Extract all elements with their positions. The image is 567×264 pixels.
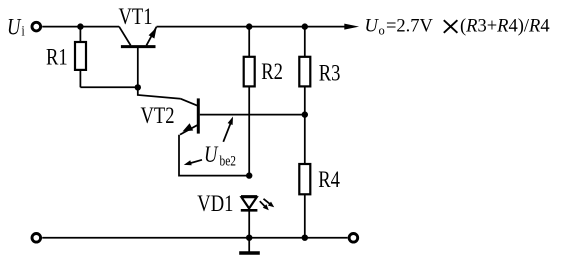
- LED arrows: [260, 199, 274, 211]
- svg-text:U: U: [7, 13, 22, 40]
- wire output rail: [157, 26, 345, 28]
- svg-text:R4: R4: [318, 166, 340, 193]
- svg-text:i: i: [22, 22, 26, 39]
- wire VT2 emitter: [179, 135, 249, 176]
- junction VT2 emitter / R2 / VD1: [246, 172, 252, 178]
- LED VD1: [241, 196, 258, 210]
- wire R1 to VT1 base: [80, 86, 137, 88]
- label Ui: [7, 13, 25, 40]
- svg-text:=2.7V: =2.7V: [386, 17, 434, 37]
- junction VT1 base / R1 / VT2 collector: [135, 84, 141, 90]
- label Ube2: [204, 141, 236, 169]
- ground: [239, 238, 260, 253]
- output arrow: [344, 24, 359, 30]
- svg-text:(R3+R4)/R4: (R3+R4)/R4: [460, 17, 550, 37]
- svg-text:R3: R3: [319, 59, 341, 86]
- junction R1 top: [77, 23, 83, 29]
- wire VT2 collector: [138, 89, 181, 99]
- svg-text:R2: R2: [261, 58, 283, 85]
- junction R3 top: [302, 23, 308, 29]
- times sign in formula: [444, 20, 458, 33]
- wire VD1 cathode to rail: [248, 210, 250, 237]
- label Uo formula: [365, 17, 550, 38]
- svg-text:be2: be2: [220, 152, 237, 169]
- junction ground: [246, 235, 252, 241]
- svg-text:R1: R1: [46, 43, 68, 70]
- terminal bottom-right: [349, 234, 358, 243]
- svg-text:U: U: [204, 141, 219, 168]
- junction R2 top: [246, 23, 252, 29]
- arrow Ube2 upper: [223, 117, 233, 142]
- junction R3 bottom / R4 / VT2 base: [302, 111, 308, 117]
- svg-text:VT2: VT2: [141, 102, 175, 129]
- input terminal Ui: [32, 22, 41, 31]
- svg-text:U: U: [365, 17, 380, 37]
- resistor R3: [304, 27, 306, 57]
- wire VT2 base: [200, 114, 305, 116]
- wire input rail: [42, 26, 119, 28]
- resistor R4: [304, 115, 306, 164]
- svg-text:VT1: VT1: [119, 3, 153, 30]
- svg-text:VD1: VD1: [197, 190, 233, 217]
- resistor R2: [248, 27, 250, 57]
- transistor VT1: [119, 27, 157, 88]
- junction R4 bottom: [302, 235, 308, 241]
- transistor VT2: [180, 98, 198, 134]
- terminal bottom-left: [32, 234, 41, 243]
- arrow Ube2 lower: [184, 160, 202, 166]
- svg-text:o: o: [379, 24, 385, 38]
- bottom rail wire: [42, 237, 347, 239]
- resistor R1: [79, 27, 81, 42]
